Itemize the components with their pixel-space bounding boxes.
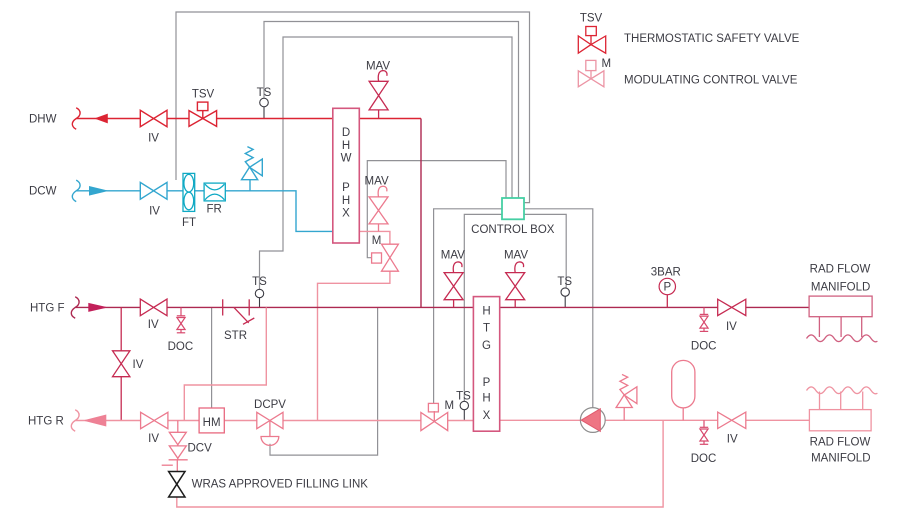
svg-text:MAV: MAV <box>441 250 465 262</box>
svg-text:IV: IV <box>148 319 159 331</box>
svg-text:W: W <box>341 153 352 165</box>
svg-text:MODULATING CONTROL VALVE: MODULATING CONTROL VALVE <box>624 75 798 87</box>
svg-text:M: M <box>602 58 612 70</box>
svg-text:MANIFOLD: MANIFOLD <box>811 282 870 294</box>
svg-text:MAV: MAV <box>504 250 528 262</box>
svg-text:TSV: TSV <box>192 89 215 101</box>
svg-text:DOC: DOC <box>691 341 717 353</box>
svg-text:CONTROL BOX: CONTROL BOX <box>471 224 555 236</box>
svg-text:H: H <box>342 195 350 207</box>
svg-text:IV: IV <box>148 133 159 145</box>
svg-text:IV: IV <box>726 321 737 333</box>
svg-text:TS: TS <box>257 87 272 99</box>
svg-text:DCV: DCV <box>188 443 213 455</box>
svg-text:IV: IV <box>727 434 738 446</box>
svg-text:THERMOSTATIC SAFETY VALVE: THERMOSTATIC SAFETY VALVE <box>624 33 800 45</box>
svg-text:X: X <box>483 410 491 422</box>
svg-text:DOC: DOC <box>168 341 194 353</box>
svg-text:DHW: DHW <box>29 114 57 126</box>
svg-text:MANIFOLD: MANIFOLD <box>811 453 870 465</box>
svg-text:TSV: TSV <box>580 13 603 25</box>
svg-text:DCPV: DCPV <box>254 399 286 411</box>
svg-text:M: M <box>445 400 455 412</box>
svg-text:IV: IV <box>149 206 160 218</box>
svg-text:TS: TS <box>557 276 572 288</box>
svg-text:DCW: DCW <box>29 186 57 198</box>
svg-text:HTG R: HTG R <box>28 416 64 428</box>
svg-text:FR: FR <box>207 204 222 216</box>
svg-text:MAV: MAV <box>366 61 390 73</box>
svg-text:HM: HM <box>203 417 221 429</box>
svg-text:P: P <box>342 182 350 194</box>
svg-text:H: H <box>342 140 350 152</box>
svg-text:STR: STR <box>224 330 247 342</box>
svg-text:HTG F: HTG F <box>30 303 65 315</box>
svg-text:H: H <box>482 306 490 318</box>
svg-text:P: P <box>483 377 491 389</box>
svg-text:RAD FLOW: RAD FLOW <box>810 437 871 449</box>
svg-text:DOC: DOC <box>691 453 717 465</box>
svg-text:IV: IV <box>133 359 144 371</box>
svg-text:WRAS APPROVED FILLING LINK: WRAS APPROVED FILLING LINK <box>192 479 369 491</box>
svg-text:P: P <box>663 281 671 293</box>
svg-text:MAV: MAV <box>365 176 389 188</box>
svg-text:FT: FT <box>182 217 196 229</box>
svg-text:T: T <box>483 323 490 335</box>
svg-text:RAD FLOW: RAD FLOW <box>810 264 871 276</box>
svg-text:D: D <box>342 127 350 139</box>
svg-text:H: H <box>482 392 490 404</box>
svg-text:IV: IV <box>148 433 159 445</box>
svg-text:X: X <box>342 208 350 220</box>
svg-text:M: M <box>372 235 382 247</box>
svg-text:TS: TS <box>252 276 267 288</box>
svg-text:TS: TS <box>456 390 471 402</box>
svg-text:G: G <box>482 340 491 352</box>
svg-text:3BAR: 3BAR <box>651 267 681 279</box>
